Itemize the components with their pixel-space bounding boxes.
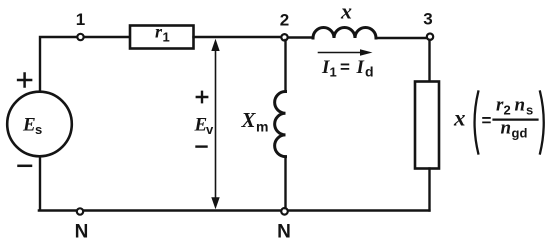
- svg-text:X: X: [241, 108, 257, 132]
- svg-text:1: 1: [163, 30, 170, 45]
- wire node2 to inductor x: [288, 36, 313, 38]
- wire source bottom to rail: [39, 156, 41, 209]
- svg-text:=: =: [340, 58, 350, 77]
- svg-text:d: d: [365, 64, 374, 80]
- svg-text:E: E: [22, 115, 36, 136]
- wire node3 down to box: [428, 40, 430, 82]
- wire top-left corner segment: [40, 37, 78, 92]
- magnetizing reactance Xm: [241, 92, 286, 157]
- svg-text:N: N: [75, 222, 89, 243]
- reactance box x: [415, 82, 439, 169]
- svg-text:I: I: [356, 57, 365, 78]
- svg-text:m: m: [256, 119, 268, 135]
- + polarity of source: [18, 74, 31, 87]
- svg-text:1: 1: [330, 65, 337, 80]
- svg-text:1: 1: [76, 10, 85, 29]
- current arrow I1 = Id: [319, 49, 374, 79]
- - polarity of source: [19, 165, 32, 168]
- label x (= r2 ns / ngd): [453, 92, 544, 154]
- svg-text:2: 2: [504, 103, 511, 118]
- wire inductor to node3: [376, 37, 427, 39]
- svg-text:N: N: [277, 222, 291, 243]
- wire Xm coil to rail node: [284, 157, 286, 209]
- svg-text:3: 3: [423, 10, 432, 29]
- node 2: [280, 11, 289, 41]
- + polarity of Ev: [197, 92, 207, 102]
- svg-text:s: s: [35, 122, 42, 137]
- svg-text:2: 2: [280, 11, 289, 30]
- wire node1 to resistor: [84, 36, 130, 38]
- svg-text:x: x: [340, 0, 352, 24]
- inductor x: [313, 0, 376, 38]
- node 3: [423, 10, 433, 40]
- svg-text:s: s: [526, 103, 533, 118]
- wire node2 down to Xm coil: [284, 40, 286, 92]
- svg-text:x: x: [453, 106, 466, 131]
- bottom rail wire: [39, 209, 430, 211]
- source Es: [7, 92, 72, 157]
- svg-text:n: n: [515, 95, 526, 116]
- svg-text:gd: gd: [512, 126, 528, 141]
- wire resistor to node2: [194, 36, 282, 38]
- node N left: [75, 208, 89, 242]
- resistor r1: [130, 22, 194, 49]
- - polarity of Ev: [197, 145, 207, 147]
- node N middle: [277, 208, 291, 243]
- node 1: [76, 10, 85, 40]
- svg-text:v: v: [206, 122, 214, 137]
- voltage arrow Ev: [194, 39, 220, 210]
- svg-text:=: =: [482, 111, 492, 130]
- wire box to bottom rail: [428, 169, 430, 211]
- svg-text:n: n: [501, 118, 512, 139]
